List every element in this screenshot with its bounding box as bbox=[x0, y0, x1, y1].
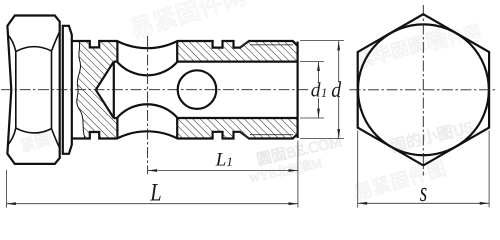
svg-text:s: s bbox=[420, 177, 427, 207]
svg-text:L: L bbox=[149, 179, 161, 206]
svg-text:d: d bbox=[331, 77, 341, 102]
